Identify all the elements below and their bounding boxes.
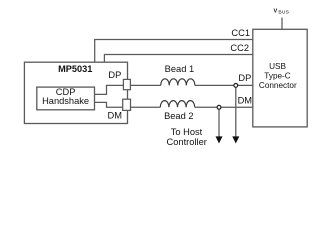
node junction DM bbox=[217, 105, 221, 109]
svg-text:DM: DM bbox=[238, 96, 252, 106]
svg-text:MP5031: MP5031 bbox=[58, 64, 92, 74]
svg-text:CC1: CC1 bbox=[231, 28, 250, 38]
label To Host Controller bbox=[167, 127, 207, 147]
svg-text:Controller: Controller bbox=[167, 137, 207, 147]
arrow to host (DP) bbox=[232, 136, 239, 143]
pin pad DM of U1 bbox=[123, 99, 131, 110]
label USB Type-C Connector bbox=[259, 62, 297, 90]
wire DP pin to Bead 1 bbox=[130, 84, 160, 86]
IC U1 MP5031 box bbox=[24, 62, 127, 123]
svg-text:Bead 2: Bead 2 bbox=[164, 111, 193, 121]
wire CDP to DM pin bbox=[95, 102, 123, 107]
arrow to host (DM) bbox=[216, 136, 223, 143]
svg-text:USB: USB bbox=[269, 62, 286, 71]
svg-text:To Host: To Host bbox=[171, 127, 203, 137]
pin pad DP of U1 bbox=[123, 79, 130, 89]
USB Type-C connector J1 bbox=[253, 29, 307, 127]
svg-text:DP: DP bbox=[238, 73, 251, 83]
svg-text:Handshake: Handshake bbox=[42, 96, 89, 106]
CDP Handshake block bbox=[37, 87, 95, 110]
svg-text:Bead 1: Bead 1 bbox=[165, 64, 194, 74]
ferrite bead 2 (inductor) bbox=[160, 101, 194, 108]
wire Bead 1 to connector DP bbox=[195, 84, 253, 86]
svg-text:Type-C: Type-C bbox=[264, 72, 290, 81]
svg-text:CC2: CC2 bbox=[230, 43, 249, 53]
wire CC2 net bbox=[104, 55, 252, 63]
node junction DP bbox=[234, 84, 238, 88]
wire DM branch to host bbox=[218, 109, 220, 136]
svg-text:BUS: BUS bbox=[278, 9, 289, 15]
label CDP Handshake bbox=[42, 87, 89, 106]
svg-text:V: V bbox=[274, 8, 278, 14]
label VBUS bbox=[274, 8, 290, 15]
svg-text:DM: DM bbox=[108, 111, 122, 121]
wire CDP to DP pin bbox=[95, 85, 124, 94]
wire DM pin to Bead 2 bbox=[131, 106, 161, 108]
svg-text:DP: DP bbox=[108, 70, 121, 80]
power net VBUS wire bbox=[281, 18, 283, 30]
svg-text:Connector: Connector bbox=[259, 81, 297, 90]
wire Bead 2 to connector DM bbox=[195, 106, 253, 108]
wire DP branch to host bbox=[235, 87, 237, 136]
ferrite bead 1 (inductor) bbox=[161, 79, 195, 86]
wire CC1 net bbox=[95, 40, 253, 63]
